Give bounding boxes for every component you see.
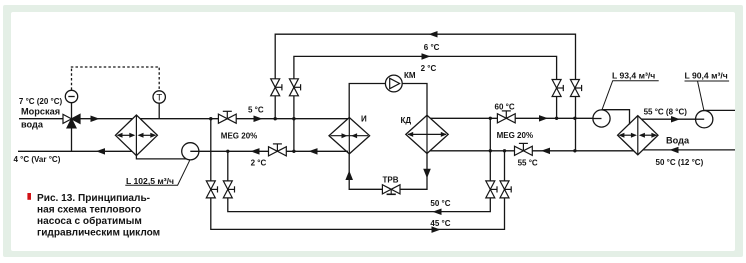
svg-text:L 90,4 м³/ч: L 90,4 м³/ч [685, 71, 728, 81]
svg-text:50 °C: 50 °C [430, 199, 450, 208]
evaporator U (И) [329, 118, 370, 154]
arrow left on 2C pipe after valve [309, 148, 318, 155]
arrow right on 60C pipe [539, 115, 548, 122]
junction dots [209, 117, 577, 153]
svg-text:насоса с обратимым: насоса с обратимым [37, 215, 142, 227]
svg-text:6 °C: 6 °C [424, 43, 440, 52]
vertical valve on 2C left riser [289, 79, 300, 96]
sensor circle T [153, 91, 165, 104]
svg-text:MEG 20%: MEG 20% [497, 131, 533, 140]
schematic text labels [14, 43, 728, 228]
arrow right on 2C loop [422, 53, 431, 60]
svg-text:T: T [156, 93, 162, 104]
arrow left on 55C pipe [541, 148, 550, 155]
svg-text:MEG 20%: MEG 20% [221, 131, 257, 140]
pipe: exchanger1 outlet to pump L102,5 [136, 154, 190, 159]
pump L90,4 [696, 110, 735, 127]
arrow left on 6C loop [429, 31, 438, 38]
svg-text:КД: КД [401, 116, 412, 125]
vertical valve on 45C left riser [206, 181, 217, 198]
svg-text:вода: вода [21, 120, 44, 130]
svg-text:60 °C: 60 °C [495, 103, 515, 112]
pipe: 2C crossover loop [294, 56, 557, 151]
vertical valve on 2C right riser [552, 80, 563, 97]
arrow right on 55C(8C) pipe [671, 116, 680, 123]
svg-text:Рис. 13. Принципиаль-: Рис. 13. Принципиаль- [37, 193, 150, 204]
svg-text:гидравлическим циклом: гидравлическим циклом [37, 228, 160, 239]
pipe: 55C return to condenser [427, 150, 638, 152]
svg-text:И: И [361, 114, 367, 123]
svg-text:4 °C (Var °C): 4 °C (Var °C) [14, 155, 61, 164]
arrow right on 5C pipe [254, 116, 263, 123]
svg-text:7 °C (20 °C): 7 °C (20 °C) [19, 97, 63, 106]
dashed control line between sensors [71, 66, 73, 90]
svg-text:55 °C (8 °C): 55 °C (8 °C) [644, 108, 688, 117]
wire: T-sensor drop line [158, 103, 160, 119]
arrow left on 2C pipe before valve [251, 148, 260, 155]
pipe: exchanger3 to pump L90,4 (55C 8C) [638, 118, 696, 120]
svg-text:Морская: Морская [21, 107, 60, 117]
svg-text:2 °C: 2 °C [251, 158, 267, 167]
svg-text:5 °C: 5 °C [248, 105, 264, 114]
heat exchanger EX3 [618, 116, 658, 155]
caption red marker [27, 193, 31, 200]
svg-text:55 °C: 55 °C [518, 159, 538, 168]
svg-text:45 °C: 45 °C [430, 219, 450, 228]
pipe: sea water return bottom-left (4C) [18, 150, 137, 152]
arrow down refrigerant into TRV [423, 169, 431, 179]
caption text [37, 193, 160, 239]
heat exchanger EX1 [115, 115, 157, 156]
pump L102,5 [182, 143, 348, 160]
wire: refrigerant compressor line [349, 84, 427, 119]
vertical valve on 6C right riser [570, 80, 581, 97]
compressor KM (КМ) [385, 75, 402, 92]
svg-text:50 °C (12 °C): 50 °C (12 °C) [656, 158, 704, 167]
svg-text:ТРВ: ТРВ [383, 176, 399, 185]
leader line label L90,4 [685, 81, 730, 110]
vertical valve on 45C right riser [500, 181, 511, 198]
valve MEG cold 5C [218, 111, 236, 123]
svg-text:ная схема теплового: ная схема теплового [37, 205, 141, 216]
arrow left on 50C loop [433, 209, 442, 216]
svg-text:2 °C: 2 °C [421, 64, 437, 73]
wire: refrigerant TRV line [349, 152, 427, 189]
pump L93,4 [593, 110, 630, 127]
arrow right on sea water supply [91, 116, 100, 123]
pipe: sea water supply top-left (7C) [19, 118, 348, 120]
wire: bypass vertical at 3-way valve [71, 103, 73, 152]
expansion valve TRV (ТРВ) [382, 185, 400, 195]
valve hot 60C [497, 111, 515, 123]
arrow right on 45C loop [432, 226, 441, 233]
arrow left on sea water return [96, 148, 105, 155]
valve MEG return 2C [269, 144, 287, 156]
arrow up refrigerant into evaporator [345, 171, 353, 181]
pipe: condenser to pump L93,4 (60C) [427, 117, 602, 119]
svg-text:L 93,4 м³/ч: L 93,4 м³/ч [612, 71, 655, 81]
pipe: 45C lower loop [211, 119, 505, 230]
vertical valve on 6C left riser [271, 79, 282, 96]
arrow left on 50C(12C) pipe [670, 147, 679, 154]
wire: riser 60C pipe to 55C pipe at x=490 [489, 118, 491, 151]
svg-text:L 102,5 м³/ч: L 102,5 м³/ч [126, 176, 174, 186]
pipe: 50C lower loop [228, 151, 491, 212]
leader line label L102,5 [125, 160, 190, 185]
leader line label L93,4 [602, 81, 659, 111]
pipe: water return 50C 12C [638, 149, 735, 151]
vertical valve on 50C left riser [223, 181, 234, 198]
sensor circle minus [65, 90, 77, 102]
condenser KD (КД) [406, 115, 448, 153]
3-way valve sea water [63, 114, 80, 128]
valve hot return 55C [515, 143, 533, 155]
pipe: 6C crossover loop [275, 34, 575, 151]
svg-text:Вода: Вода [666, 136, 690, 146]
vertical valve on 50C right riser [486, 181, 497, 198]
svg-text:КМ: КМ [404, 71, 416, 80]
